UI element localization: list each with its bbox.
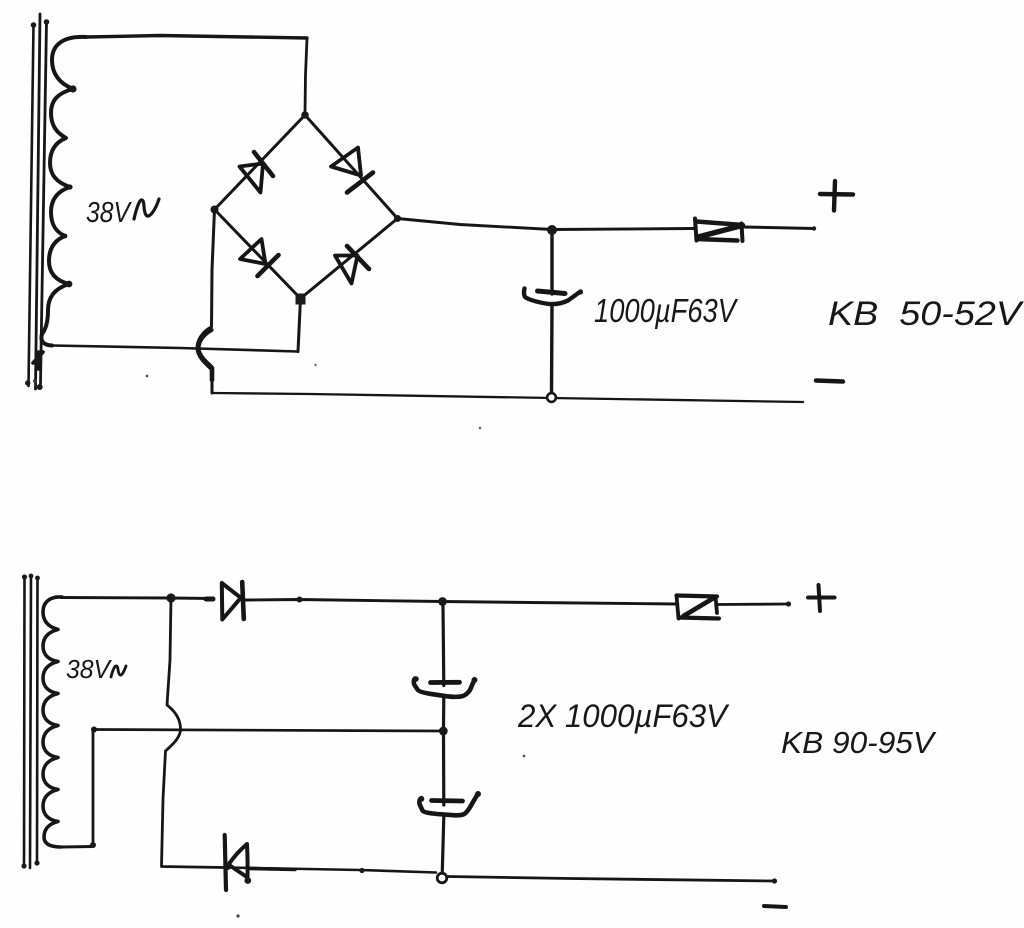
svg-text:2X 1000µF63V: 2X 1000µF63V	[517, 698, 730, 734]
svg-text:38V: 38V	[66, 654, 113, 684]
svg-text:KB 90-95V: KB 90-95V	[781, 725, 937, 760]
svg-text:KB 50-52V: KB 50-52V	[828, 295, 1024, 333]
svg-text:1000µF63V: 1000µF63V	[594, 292, 738, 329]
svg-text:38V: 38V	[86, 197, 132, 229]
